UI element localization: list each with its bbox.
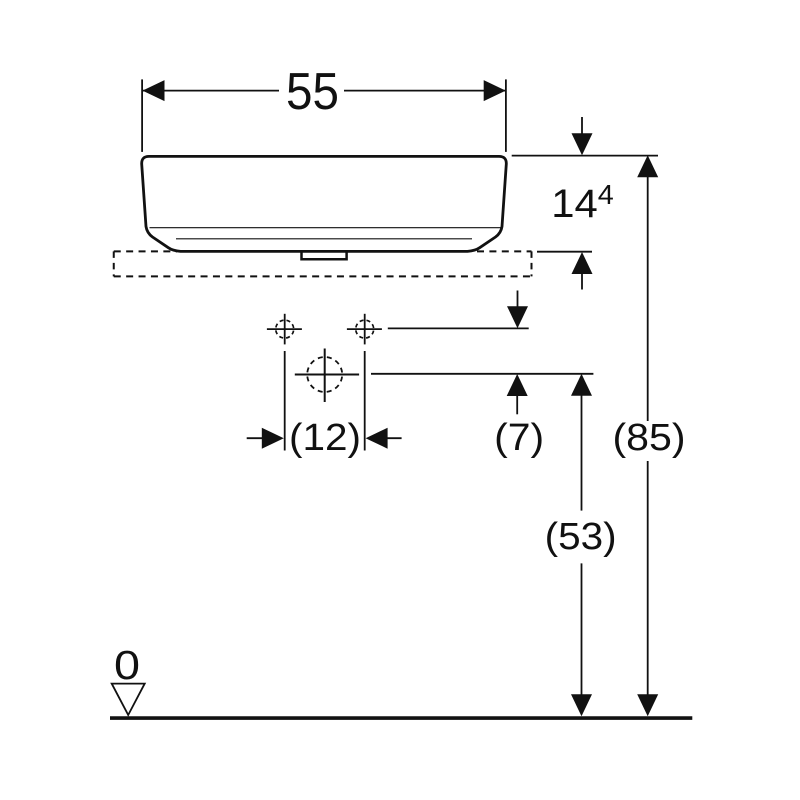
lower arrow stem (516, 394, 518, 414)
basin top level line (512, 155, 658, 157)
left arrow stem (247, 437, 265, 439)
lower arrowhead pointing down (637, 694, 658, 716)
lower arrowhead pointing up (572, 252, 593, 274)
dimension (53) (drain height above floor) (545, 374, 617, 717)
upper arrowhead pointing up (571, 374, 592, 396)
upper arrow stem (581, 117, 583, 136)
washbasin inner bottom line (176, 238, 472, 240)
left arrowhead pointing right (262, 428, 284, 449)
svg-text:(85): (85) (613, 417, 686, 459)
dimension (85) (basin top height above floor) (613, 155, 686, 716)
washbasin outer profile (142, 156, 507, 251)
tap hole left (cross with dashed circle) (267, 314, 302, 345)
right extension line (364, 351, 366, 451)
left extension line (141, 79, 143, 151)
countertop top level line (537, 251, 592, 253)
dimension (7) (tap holes to drain) (494, 291, 544, 460)
tap hole level line (388, 327, 529, 329)
upper arrowhead pointing down (507, 306, 528, 328)
washbasin drain outlet tab (302, 251, 347, 259)
lower arrowhead pointing up (507, 374, 528, 396)
upper line segment (581, 394, 583, 511)
countertop (dashed outline) (114, 251, 532, 276)
svg-text:(53): (53) (545, 516, 617, 558)
washbasin inner rim line (150, 227, 501, 229)
svg-text:(7): (7) (494, 417, 544, 459)
drain hole (cross with dashed circle) (295, 349, 359, 403)
dimension 14^4 (basin height above countertop) (512, 117, 658, 290)
right arrowhead (484, 80, 506, 101)
right arrowhead pointing left (366, 428, 388, 449)
lower arrowhead pointing down (571, 694, 592, 716)
svg-text:0: 0 (114, 642, 140, 688)
upper arrow stem (517, 291, 519, 310)
right extension line (505, 79, 507, 151)
svg-text:(12): (12) (289, 417, 361, 459)
right arrow stem (386, 437, 402, 439)
upper arrowhead pointing up (637, 155, 658, 177)
lower line segment (647, 461, 649, 696)
svg-text:144: 144 (551, 179, 614, 226)
left extension line (284, 351, 286, 451)
dimension 55 (top width) (142, 62, 506, 152)
left arrowhead (143, 80, 165, 101)
upper line segment (647, 176, 649, 421)
lower arrow stem (581, 272, 583, 290)
dimension line left segment (143, 90, 280, 92)
svg-text:55: 55 (286, 62, 339, 120)
dimension (12) (tap hole spacing) (247, 351, 402, 459)
datum triangle symbol (112, 684, 145, 715)
lower line segment (581, 563, 583, 696)
tap hole right (cross with dashed circle) (347, 314, 382, 345)
dimension line right segment (344, 90, 506, 92)
drain level line (371, 373, 593, 375)
upper arrowhead pointing down (572, 133, 593, 155)
floor line (110, 716, 692, 720)
